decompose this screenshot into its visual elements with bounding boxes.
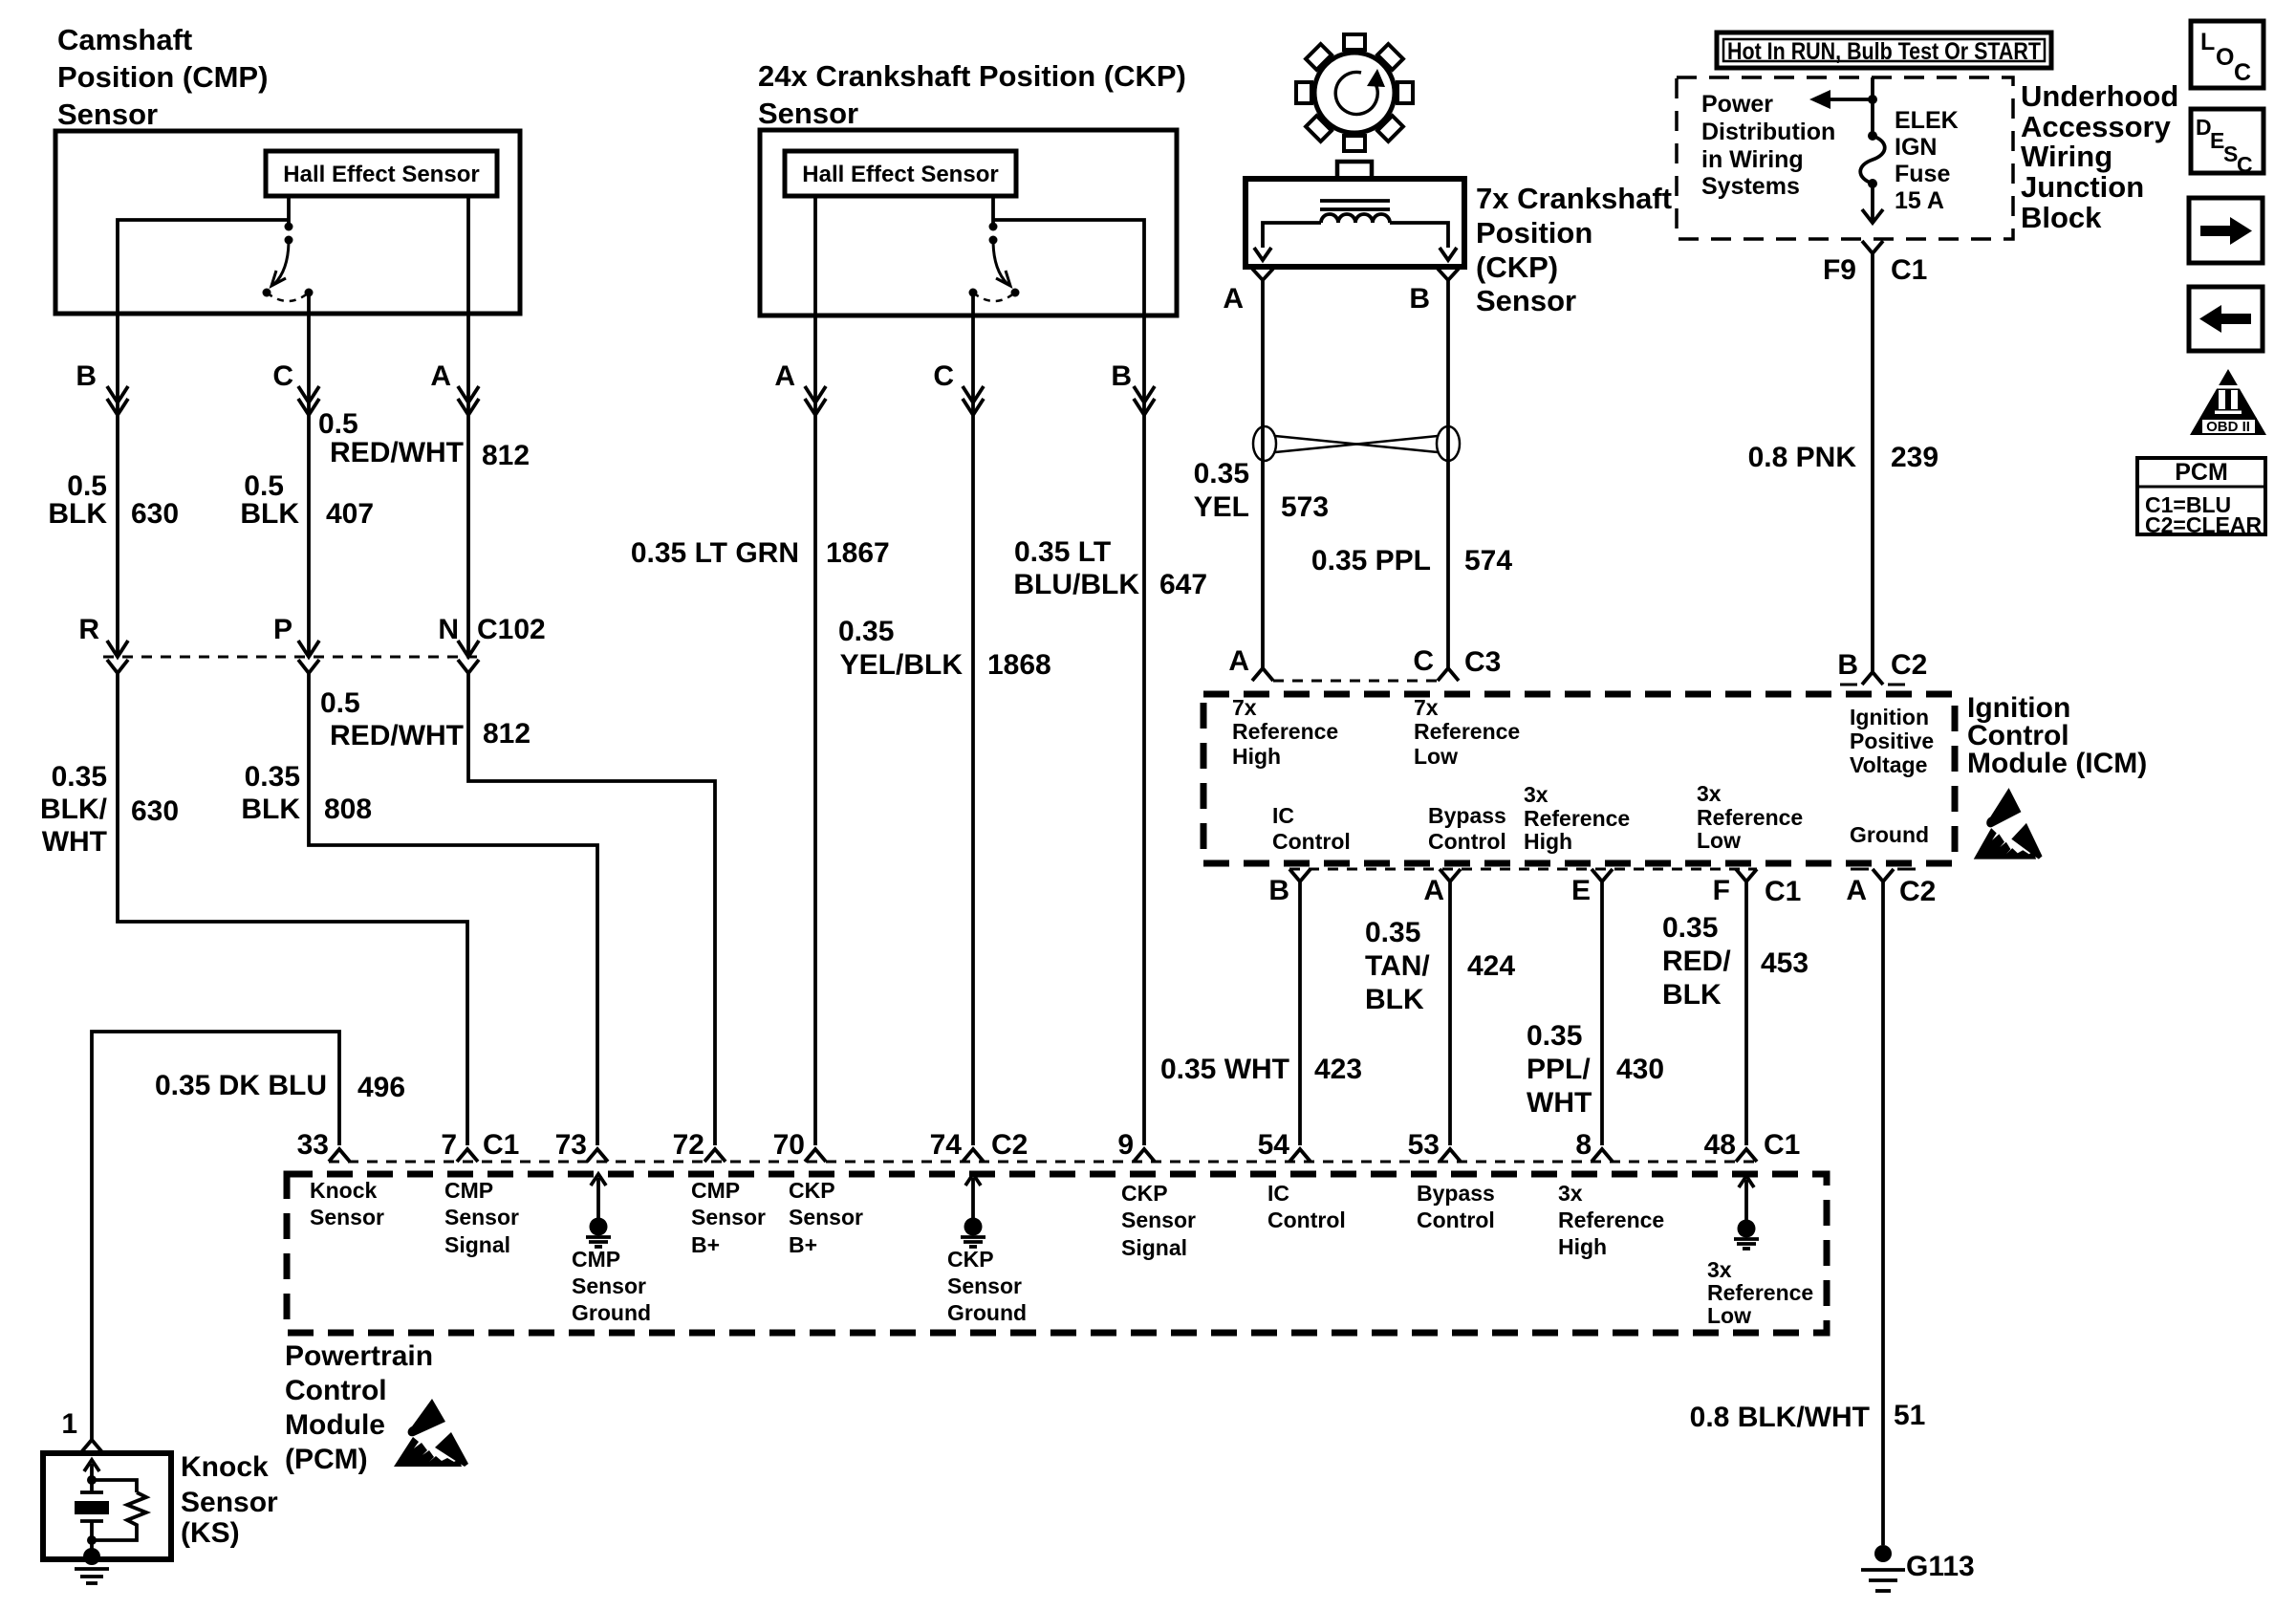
7x pickup coil <box>1321 214 1390 223</box>
svg-text:C2: C2 <box>1891 649 1927 681</box>
svg-text:0.35 PPL: 0.35 PPL <box>1311 545 1431 577</box>
svg-text:Reference: Reference <box>1414 719 1520 744</box>
svg-text:Sensor: Sensor <box>1121 1207 1196 1232</box>
svg-text:239: 239 <box>1891 442 1939 473</box>
ICM bottom connector line <box>1289 868 1757 871</box>
svg-text:BLK: BLK <box>48 498 107 530</box>
svg-text:Signal: Signal <box>444 1232 510 1257</box>
7x internal leads <box>1263 223 1321 248</box>
DESC icon <box>2191 109 2264 177</box>
connector F9 / C1 <box>1862 241 1883 253</box>
svg-text:Junction: Junction <box>2021 170 2144 204</box>
svg-text:CMP: CMP <box>572 1247 620 1272</box>
ICM bottom pin letters <box>1268 875 1936 907</box>
svg-text:808: 808 <box>324 794 372 825</box>
svg-text:BLK: BLK <box>1662 979 1722 1011</box>
svg-text:Position: Position <box>1476 216 1592 250</box>
svg-text:Position (CMP): Position (CMP) <box>57 60 268 94</box>
resistor <box>92 1480 137 1492</box>
24x CKP sensor title <box>758 59 1186 130</box>
piezo element <box>90 1480 94 1492</box>
svg-text:423: 423 <box>1314 1054 1362 1085</box>
PCM pin numbers <box>297 1129 1801 1161</box>
wire CMP B to C102 <box>116 314 119 657</box>
svg-text:CKP: CKP <box>947 1247 994 1272</box>
svg-text:High: High <box>1558 1234 1607 1259</box>
7x CKP sensor connector tab <box>1337 162 1372 179</box>
node: CMP switch contacts <box>263 289 271 297</box>
svg-text:C1: C1 <box>1891 254 1927 286</box>
svg-text:453: 453 <box>1761 947 1809 979</box>
svg-text:G113: G113 <box>1906 1551 1975 1582</box>
7x CKP reluctor gear icon <box>1272 11 1438 176</box>
svg-text:Sensor: Sensor <box>444 1205 519 1229</box>
svg-text:Low: Low <box>1414 744 1458 769</box>
node: CMP switch common <box>285 223 293 231</box>
svg-text:C1: C1 <box>483 1129 519 1161</box>
svg-text:Bypass: Bypass <box>1417 1181 1495 1206</box>
wire 573 YEL: 7x A to ICM A <box>1261 280 1265 668</box>
svg-text:812: 812 <box>482 440 530 471</box>
knock sensor wire 496 DK BLU <box>92 1032 339 1440</box>
svg-text:Sensor: Sensor <box>310 1205 384 1229</box>
svg-text:0.35: 0.35 <box>245 761 300 793</box>
svg-text:C3: C3 <box>1464 646 1501 678</box>
wire 574 PPL: 7x B to ICM C <box>1446 280 1450 668</box>
knock sensor pin 1 connector <box>81 1440 102 1452</box>
24x switch arm <box>993 240 1007 284</box>
svg-text:A: A <box>1228 645 1249 677</box>
svg-text:Low: Low <box>1697 828 1741 853</box>
svg-text:Low: Low <box>1707 1303 1751 1328</box>
wire 812 RED/WHT: N to PCM 72 <box>468 673 715 1145</box>
svg-text:Knock: Knock <box>310 1178 378 1203</box>
svg-text:A: A <box>1846 875 1867 906</box>
svg-text:L: L <box>2200 29 2215 55</box>
OBD II icon <box>2190 369 2266 435</box>
svg-text:P: P <box>273 614 292 645</box>
svg-text:IGN: IGN <box>1895 134 1937 161</box>
svg-text:ELEK: ELEK <box>1895 107 1959 134</box>
fuse ELEK IGN 15A <box>1860 136 1885 184</box>
svg-text:Bypass: Bypass <box>1428 803 1506 828</box>
svg-text:Powertrain: Powertrain <box>285 1340 433 1372</box>
svg-text:9: 9 <box>1117 1129 1134 1161</box>
svg-text:573: 573 <box>1281 491 1329 523</box>
svg-text:Ground: Ground <box>947 1300 1027 1325</box>
wire: 24x internal to pin B <box>993 220 1144 315</box>
svg-text:Control: Control <box>1272 829 1351 854</box>
24x pin letters and wire labels <box>631 360 1207 681</box>
svg-text:Power: Power <box>1701 91 1773 118</box>
svg-text:Reference: Reference <box>1232 719 1338 744</box>
wire 24x A (1867 LT GRN) to PCM 70 <box>813 315 817 1145</box>
svg-text:Ground: Ground <box>1850 822 1929 847</box>
svg-text:7x: 7x <box>1414 695 1439 720</box>
svg-text:High: High <box>1232 744 1281 769</box>
svg-text:BLU/BLK: BLU/BLK <box>1013 569 1139 600</box>
svg-text:1: 1 <box>61 1408 77 1440</box>
wire 51 BLK/WHT: ICM A to G113 <box>1881 881 1885 1545</box>
right arrow icon <box>2189 198 2263 263</box>
svg-text:0.35 DK BLU: 0.35 DK BLU <box>155 1070 327 1101</box>
PCM connector line <box>329 1161 1757 1164</box>
wire CMP C to C102 <box>307 314 311 657</box>
svg-text:0.35: 0.35 <box>1365 917 1420 948</box>
svg-text:Hot In RUN, Bulb Test Or START: Hot In RUN, Bulb Test Or START <box>1727 38 2041 65</box>
svg-text:C2: C2 <box>1899 876 1936 907</box>
svg-text:Signal: Signal <box>1121 1235 1187 1260</box>
wire CMP A to C102 <box>466 314 470 657</box>
PCM legend box <box>2137 458 2265 537</box>
7x box bottom connectors <box>1252 269 1273 280</box>
svg-text:Distribution: Distribution <box>1701 119 1835 145</box>
svg-text:(CKP): (CKP) <box>1476 250 1558 284</box>
svg-text:B+: B+ <box>789 1232 817 1257</box>
knock sensor internals <box>75 1460 146 1583</box>
wire: 24x pin A internal <box>813 196 817 315</box>
wire 630 BLK/WHT: R to PCM 7 <box>118 673 467 1145</box>
ground at knock sensor <box>90 1540 94 1554</box>
svg-text:IC: IC <box>1272 803 1294 828</box>
svg-text:B: B <box>1268 875 1289 906</box>
CMP pin letters <box>48 360 530 530</box>
svg-text:0.5: 0.5 <box>320 687 360 719</box>
24x CKP sensor box <box>760 130 1177 315</box>
svg-text:Wiring: Wiring <box>2021 140 2112 173</box>
svg-text:Block: Block <box>2021 201 2102 234</box>
svg-text:(PCM): (PCM) <box>285 1444 368 1475</box>
svg-text:8: 8 <box>1575 1129 1592 1161</box>
PCM title <box>285 1340 433 1475</box>
svg-text:Accessory: Accessory <box>2021 110 2172 143</box>
svg-text:Control: Control <box>1417 1207 1495 1232</box>
wire from hall sensor to switch (CMP) <box>287 196 291 227</box>
svg-text:Knock: Knock <box>181 1451 269 1483</box>
PCM internal labels <box>310 1178 1813 1328</box>
twisted pair symbol <box>1253 426 1460 461</box>
svg-text:High: High <box>1524 829 1572 854</box>
ICM dashed box <box>1203 694 1955 863</box>
ICM title <box>1967 692 2147 779</box>
svg-text:B: B <box>1111 360 1132 392</box>
PCM pin connectors <box>329 1149 350 1162</box>
wire: CMP pin C internal <box>307 293 311 314</box>
svg-text:3x: 3x <box>1707 1257 1732 1282</box>
svg-text:B: B <box>76 360 97 392</box>
svg-text:3x: 3x <box>1524 782 1549 807</box>
svg-text:B+: B+ <box>691 1232 720 1257</box>
wire 239 PNK to ICM B <box>1871 253 1874 672</box>
wire 430 PPL/WHT: ICM E to PCM 8 <box>1600 881 1604 1145</box>
svg-text:0.35 LT GRN: 0.35 LT GRN <box>631 537 799 569</box>
Hot In RUN label box <box>1717 33 2051 68</box>
svg-text:Module: Module <box>285 1409 385 1441</box>
wire: CMP pin A internal <box>466 196 470 314</box>
svg-text:RED/WHT: RED/WHT <box>330 720 464 751</box>
svg-text:73: 73 <box>555 1129 587 1161</box>
svg-text:7x: 7x <box>1232 695 1257 720</box>
7x CKP sensor title <box>1223 182 1672 317</box>
svg-text:BLK: BLK <box>1365 984 1424 1015</box>
svg-text:Sensor: Sensor <box>1476 284 1576 317</box>
wire into fuse <box>1871 77 1874 136</box>
svg-text:N: N <box>438 614 459 645</box>
CMP sensor box <box>55 131 520 314</box>
svg-text:WHT: WHT <box>1527 1087 1592 1119</box>
ground: CKP sensor ground (PCM pin 74) <box>961 1174 986 1247</box>
wire: 24x pin C internal <box>971 293 975 315</box>
svg-text:Module (ICM): Module (ICM) <box>1967 748 2147 779</box>
ground: CMP sensor ground (PCM pin 73) <box>586 1174 611 1247</box>
svg-text:Control: Control <box>1428 829 1506 854</box>
Hall effect sensor (CMP) <box>266 151 497 196</box>
svg-text:C2: C2 <box>991 1129 1028 1161</box>
svg-text:1867: 1867 <box>826 537 890 569</box>
svg-text:R: R <box>78 614 99 645</box>
svg-text:TAN/: TAN/ <box>1365 950 1430 982</box>
svg-text:72: 72 <box>673 1129 704 1161</box>
svg-text:E: E <box>1571 875 1591 906</box>
svg-text:BLK: BLK <box>240 498 299 530</box>
ICM internal labels <box>1232 695 1934 854</box>
svg-text:RED/WHT: RED/WHT <box>330 437 464 468</box>
svg-text:CMP: CMP <box>691 1178 740 1203</box>
svg-text:CKP: CKP <box>1121 1181 1168 1206</box>
svg-text:3x: 3x <box>1697 781 1722 806</box>
svg-text:1868: 1868 <box>987 649 1051 681</box>
svg-text:in Wiring: in Wiring <box>1701 146 1804 173</box>
svg-text:C: C <box>1413 645 1434 677</box>
underhood junction block dashed box <box>1677 77 2013 239</box>
svg-text:CKP: CKP <box>789 1178 835 1203</box>
svg-text:Control: Control <box>1267 1207 1346 1232</box>
connector C102 <box>103 656 483 659</box>
svg-text:Ground: Ground <box>572 1300 651 1325</box>
svg-text:C1: C1 <box>1765 876 1801 907</box>
ground: 3x reference low (PCM pin 48) <box>1734 1176 1759 1249</box>
wire 24x C (1868 YEL/BLK) to PCM 74 <box>971 315 975 1145</box>
svg-text:15 A: 15 A <box>1895 187 1944 214</box>
power distribution arrow <box>1828 98 1873 101</box>
svg-text:F9: F9 <box>1823 254 1856 286</box>
svg-text:F: F <box>1713 875 1730 906</box>
svg-text:Sensor: Sensor <box>181 1487 278 1518</box>
svg-text:C1: C1 <box>1764 1129 1800 1161</box>
svg-text:A: A <box>774 360 795 392</box>
svg-text:C2=CLEAR: C2=CLEAR <box>2145 512 2262 537</box>
svg-text:Underhood: Underhood <box>2021 79 2178 113</box>
svg-text:Fuse: Fuse <box>1895 161 1950 187</box>
CMP switch arm <box>274 240 289 284</box>
svg-text:Control: Control <box>285 1375 387 1406</box>
wire 424 TAN/BLK: ICM A to PCM 53 <box>1448 881 1452 1145</box>
svg-text:0.35 LT: 0.35 LT <box>1014 536 1111 568</box>
svg-text:Sensor: Sensor <box>572 1273 646 1298</box>
wire 423 WHT: ICM B to PCM 54 <box>1298 881 1302 1145</box>
svg-text:630: 630 <box>131 498 179 530</box>
svg-text:Positive: Positive <box>1850 729 1934 753</box>
svg-text:Sensor: Sensor <box>691 1205 766 1229</box>
svg-text:RED/: RED/ <box>1662 946 1731 977</box>
svg-text:574: 574 <box>1464 545 1512 577</box>
svg-text:24x Crankshaft Position (CKP): 24x Crankshaft Position (CKP) <box>758 59 1186 93</box>
Hall effect sensor (24x) <box>785 151 1016 196</box>
svg-text:BLK/: BLK/ <box>40 794 108 825</box>
svg-text:Systems: Systems <box>1701 173 1800 200</box>
svg-text:PPL/: PPL/ <box>1527 1054 1591 1085</box>
ground G113 <box>1861 1545 1975 1591</box>
svg-text:B: B <box>1409 283 1430 315</box>
svg-text:(KS): (KS) <box>181 1517 240 1549</box>
svg-text:54: 54 <box>1258 1129 1290 1161</box>
svg-text:Hall Effect Sensor: Hall Effect Sensor <box>802 162 998 187</box>
svg-text:0.35: 0.35 <box>52 761 107 793</box>
svg-text:74: 74 <box>930 1129 963 1161</box>
svg-text:0.5: 0.5 <box>318 408 358 440</box>
wire fuse to junction block edge <box>1871 184 1874 221</box>
svg-text:Reference: Reference <box>1707 1280 1813 1305</box>
svg-text:7: 7 <box>441 1129 457 1161</box>
wire 453 RED/BLK: ICM F to PCM 48 <box>1744 881 1748 1145</box>
svg-text:IC: IC <box>1267 1181 1289 1206</box>
ESD symbol (PCM) <box>394 1399 468 1467</box>
svg-text:OBD II: OBD II <box>2206 419 2250 435</box>
knock sensor box <box>43 1453 171 1559</box>
svg-text:Camshaft: Camshaft <box>57 23 192 56</box>
ESD symbol (ICM) <box>1974 788 2043 859</box>
svg-text:CMP: CMP <box>444 1178 493 1203</box>
knock sensor title <box>181 1451 278 1549</box>
svg-text:0.35: 0.35 <box>1194 458 1249 490</box>
svg-text:0.8 BLK/WHT: 0.8 BLK/WHT <box>1690 1402 1870 1433</box>
svg-text:51: 51 <box>1894 1400 1925 1431</box>
connector C3 <box>1273 680 1438 683</box>
svg-text:Sensor: Sensor <box>758 97 858 130</box>
svg-text:70: 70 <box>773 1129 805 1161</box>
svg-text:53: 53 <box>1408 1129 1440 1161</box>
svg-text:0.8 PNK: 0.8 PNK <box>1748 442 1857 473</box>
wire: CMP internal to pin B <box>118 220 289 314</box>
svg-text:0.35: 0.35 <box>1662 912 1718 944</box>
svg-text:Sensor: Sensor <box>789 1205 863 1229</box>
svg-text:496: 496 <box>357 1072 405 1103</box>
svg-text:Sensor: Sensor <box>947 1273 1022 1298</box>
svg-text:Reference: Reference <box>1697 805 1803 830</box>
svg-text:647: 647 <box>1159 569 1207 600</box>
svg-text:424: 424 <box>1467 950 1515 982</box>
svg-text:PCM: PCM <box>2175 459 2228 486</box>
svg-text:C: C <box>2237 152 2253 177</box>
svg-text:7x Crankshaft: 7x Crankshaft <box>1476 182 1672 215</box>
wire 24x B (647 LT BLU/BLK) to PCM 9 <box>1142 315 1146 1145</box>
svg-text:Hall Effect Sensor: Hall Effect Sensor <box>283 162 479 187</box>
wire 808 BLK: P to PCM 73 <box>309 673 597 1145</box>
svg-text:BLK: BLK <box>241 794 300 825</box>
svg-text:WHT: WHT <box>42 826 107 858</box>
svg-text:C: C <box>2234 59 2251 86</box>
svg-text:430: 430 <box>1616 1054 1664 1085</box>
7x CKP sensor box <box>1245 179 1464 267</box>
svg-text:3x: 3x <box>1558 1181 1583 1206</box>
svg-text:Voltage: Voltage <box>1850 752 1927 777</box>
svg-text:407: 407 <box>326 498 374 530</box>
svg-text:0.35: 0.35 <box>838 616 894 647</box>
svg-text:C102: C102 <box>477 614 546 645</box>
svg-text:B: B <box>1837 649 1858 681</box>
svg-text:A: A <box>1423 875 1444 906</box>
svg-text:Reference: Reference <box>1524 806 1630 831</box>
PCM dashed box <box>287 1174 1827 1333</box>
svg-text:Ignition: Ignition <box>1850 705 1929 729</box>
svg-text:A: A <box>1223 283 1244 315</box>
svg-text:0.35 WHT: 0.35 WHT <box>1160 1054 1289 1085</box>
svg-text:YEL: YEL <box>1194 491 1249 523</box>
svg-text:0.35: 0.35 <box>1527 1020 1582 1052</box>
svg-text:C: C <box>933 360 954 392</box>
svg-text:48: 48 <box>1704 1129 1736 1161</box>
LOC icon <box>2191 21 2264 88</box>
svg-text:812: 812 <box>483 718 531 750</box>
svg-text:33: 33 <box>297 1129 329 1161</box>
svg-text:A: A <box>430 360 451 392</box>
svg-text:Sensor: Sensor <box>57 98 158 131</box>
svg-text:Reference: Reference <box>1558 1207 1664 1232</box>
svg-text:C: C <box>272 360 293 392</box>
left arrow icon <box>2189 287 2263 351</box>
svg-text:O: O <box>2216 44 2234 71</box>
svg-text:YEL/BLK: YEL/BLK <box>840 649 964 681</box>
7x core lines <box>1320 199 1390 203</box>
CMP sensor title <box>57 23 268 131</box>
wire from hall sensor to switch (24x) <box>991 196 995 227</box>
svg-text:630: 630 <box>131 795 179 827</box>
